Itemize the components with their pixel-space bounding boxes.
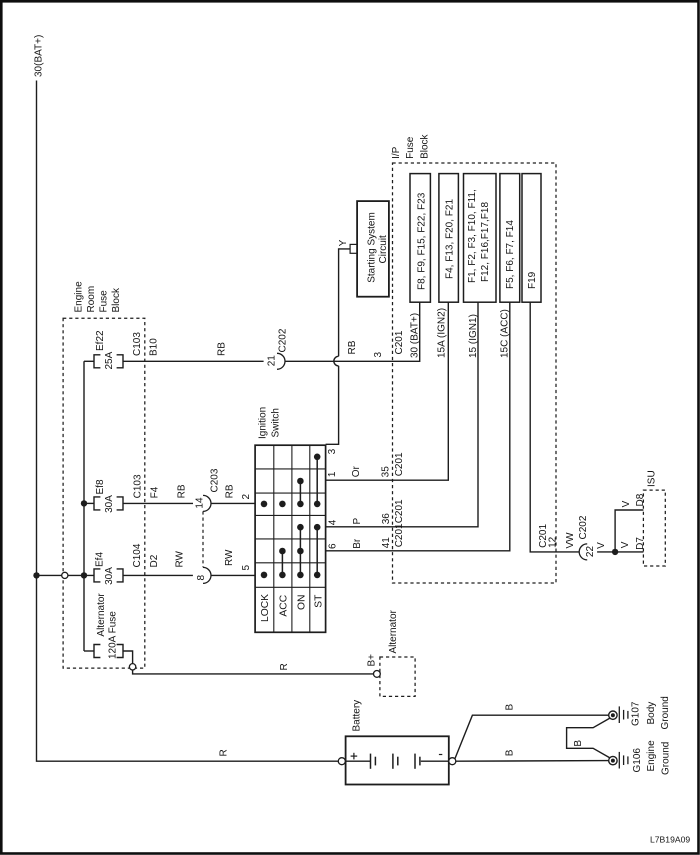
svg-text:G106: G106 <box>632 748 643 773</box>
svg-text:B: B <box>505 704 516 711</box>
svg-text:F19: F19 <box>527 271 538 289</box>
svg-text:D8: D8 <box>635 493 646 506</box>
bulkhead connector circle <box>62 572 68 578</box>
fuse 120A Alternator Fuse <box>84 650 94 652</box>
svg-text:Ground: Ground <box>661 742 672 775</box>
Alternator dashed box <box>380 657 415 696</box>
wire RB from Ef22 <box>123 360 264 362</box>
svg-text:15A (IGN2): 15A (IGN2) <box>437 308 448 358</box>
wire 30(BAT+) bus <box>37 81 339 762</box>
fuse group F8 F9 F15 F22 F23 <box>410 174 430 303</box>
wire RB from Ef8 <box>123 502 193 504</box>
svg-text:RB: RB <box>217 342 228 356</box>
svg-text:14: 14 <box>195 497 206 509</box>
svg-text:36: 36 <box>381 513 392 525</box>
svg-text:Fuse: Fuse <box>99 290 110 313</box>
svg-text:30 (BAT+): 30 (BAT+) <box>410 313 421 358</box>
wire RB to ignition switch pin 2 <box>211 502 255 504</box>
svg-text:V: V <box>620 541 631 548</box>
bulkhead connector circle <box>129 664 135 670</box>
ISU dashed box <box>643 490 665 566</box>
wire branch to engine room fuse block <box>37 574 62 576</box>
wire B battery to body ground G107 <box>455 715 609 759</box>
svg-text:V: V <box>621 500 632 507</box>
Battery box <box>346 736 449 784</box>
svg-text:41: 41 <box>381 537 392 549</box>
svg-text:LOCK: LOCK <box>260 594 271 622</box>
wire hop over RB wire <box>334 356 339 366</box>
svg-text:8: 8 <box>196 575 207 581</box>
connector C202 pin 22 <box>579 544 587 560</box>
svg-text:C201: C201 <box>394 499 405 523</box>
wire Br ignition switch pin 6 to fuse block <box>326 302 510 551</box>
svg-text:C202: C202 <box>578 515 589 539</box>
svg-text:Body: Body <box>646 702 657 725</box>
battery - terminal <box>449 758 456 765</box>
svg-text:30A: 30A <box>104 567 115 585</box>
wire B jumper between grounds <box>567 718 610 758</box>
svg-text:L7B19A09: L7B19A09 <box>650 835 690 845</box>
Engine Room Fuse Block dashed box <box>63 318 145 668</box>
svg-text:Room: Room <box>86 286 97 313</box>
svg-text:ISU: ISU <box>647 470 658 487</box>
svg-text:C103: C103 <box>132 332 143 356</box>
svg-text:Engine: Engine <box>646 740 657 772</box>
svg-text:Y: Y <box>338 239 349 246</box>
ignition switch body <box>255 445 326 632</box>
wire from F19 to ISU <box>530 302 579 552</box>
svg-text:Alternator: Alternator <box>96 593 107 637</box>
svg-text:Engine: Engine <box>74 281 85 313</box>
fuse Ef8 30A <box>84 502 94 504</box>
svg-text:25A: 25A <box>104 351 115 369</box>
junction on V wire <box>612 549 618 555</box>
svg-text:RB: RB <box>225 484 236 498</box>
svg-text:Block: Block <box>420 133 431 158</box>
svg-text:Or: Or <box>351 466 362 478</box>
junction Ef8 feed <box>81 500 87 506</box>
I/P Fuse Block dashed box <box>393 163 557 583</box>
battery minus sign <box>439 754 442 756</box>
wire Y from starting system circuit <box>339 249 351 356</box>
svg-text:Ef4: Ef4 <box>95 552 106 567</box>
svg-text:Fuse: Fuse <box>405 136 416 159</box>
svg-text:Starting System: Starting System <box>367 212 378 283</box>
svg-text:4: 4 <box>327 519 338 525</box>
wire Y to ignition switch pin 3 <box>326 366 339 444</box>
fuse Ef22 25A <box>84 360 94 362</box>
ground G106 symbol <box>609 756 617 764</box>
svg-text:30A: 30A <box>104 495 115 513</box>
wire V to ISU D7 <box>597 551 643 553</box>
wire Or ignition switch pin 1 to fuse block <box>326 302 449 480</box>
svg-text:B10: B10 <box>149 338 160 356</box>
svg-text:22: 22 <box>585 546 596 558</box>
svg-text:RB: RB <box>347 340 358 354</box>
fuse Ef4 30A <box>94 569 100 582</box>
svg-text:6: 6 <box>327 543 338 549</box>
svg-text:Block: Block <box>111 287 122 312</box>
svg-text:35: 35 <box>381 466 392 478</box>
svg-text:F4: F4 <box>150 486 161 498</box>
wire from alternator fuse <box>123 651 133 664</box>
svg-text:15C (ACC): 15C (ACC) <box>500 309 511 358</box>
tab on box <box>350 244 357 253</box>
fuse F19 <box>522 174 541 303</box>
svg-text:C201: C201 <box>394 523 405 547</box>
svg-text:C201: C201 <box>394 452 405 476</box>
svg-text:1: 1 <box>327 471 338 477</box>
fuse group F4 F13 F20 F21 <box>439 174 459 303</box>
svg-text:C104: C104 <box>132 543 143 567</box>
svg-text:ACC: ACC <box>279 594 290 616</box>
svg-text:Br: Br <box>352 538 363 549</box>
svg-text:RW: RW <box>175 550 186 567</box>
svg-text:B: B <box>573 740 584 747</box>
wire RW to ignition switch pin 5 <box>211 574 255 576</box>
fuse group F1 F2 F3 F10 F11 F12 F16 F17 F18 <box>464 174 497 303</box>
svg-text:3: 3 <box>327 448 338 454</box>
svg-text:F5, F6, F7, F14: F5, F6, F7, F14 <box>505 220 516 289</box>
svg-text:Ignition: Ignition <box>258 407 269 439</box>
ground G107 symbol <box>609 711 617 719</box>
wire RW from Ef4 <box>123 574 193 576</box>
svg-text:R: R <box>219 749 230 756</box>
wire B battery to engine ground G106 <box>456 760 609 763</box>
svg-text:F1, F2, F3, F10, F11,: F1, F2, F3, F10, F11, <box>467 189 478 283</box>
svg-text:Ground: Ground <box>660 696 671 729</box>
svg-text:F8, F9, F15, F22, F23: F8, F9, F15, F22, F23 <box>416 192 427 290</box>
svg-text:ON: ON <box>297 595 308 610</box>
svg-text:B: B <box>505 749 516 756</box>
Starting System Circuit box <box>357 201 389 297</box>
svg-text:C203: C203 <box>210 468 221 492</box>
svg-text:C201: C201 <box>394 330 405 354</box>
wire P ignition switch pin 4 to fuse block <box>326 302 478 527</box>
svg-text:V: V <box>596 542 607 549</box>
fuse group F5 F6 F7 F14 <box>500 174 520 303</box>
svg-text:Battery: Battery <box>352 700 363 732</box>
svg-text:C103: C103 <box>133 474 144 498</box>
svg-text:Alternator: Alternator <box>388 609 399 653</box>
svg-text:Ef22: Ef22 <box>95 330 106 351</box>
junction on bus <box>33 572 39 578</box>
svg-text:D7: D7 <box>635 537 646 550</box>
svg-text:VW: VW <box>565 532 576 549</box>
svg-text:Switch: Switch <box>271 408 282 437</box>
svg-text:Circuit: Circuit <box>378 235 389 264</box>
switch contacts <box>314 454 321 461</box>
svg-text:G107: G107 <box>631 701 642 726</box>
wire into fuse block <box>68 574 94 576</box>
svg-text:ST: ST <box>314 594 325 608</box>
svg-text:30(BAT+): 30(BAT+) <box>34 35 45 77</box>
wire R to alternator B+ <box>133 670 374 674</box>
svg-text:F12, F16,F17,F18: F12, F16,F17,F18 <box>480 202 491 282</box>
wire V to ISU D8 <box>615 510 643 552</box>
svg-text:120A Fuse: 120A Fuse <box>108 611 119 659</box>
svg-text:2: 2 <box>241 494 252 500</box>
alternator B+ terminal <box>374 671 381 678</box>
C203 connector dashed link <box>202 511 204 567</box>
wire RB to fuse block <box>285 302 420 361</box>
svg-text:12: 12 <box>548 536 559 548</box>
svg-text:F4, F13, F20, F21: F4, F13, F20, F21 <box>445 199 456 279</box>
svg-text:P: P <box>352 518 363 525</box>
fuse bus wire <box>83 361 85 651</box>
svg-text:D2: D2 <box>149 554 160 567</box>
battery plus sign <box>351 755 358 757</box>
svg-text:21: 21 <box>267 355 278 367</box>
svg-text:RW: RW <box>224 549 235 566</box>
svg-text:C202: C202 <box>278 328 289 352</box>
junction Ef4 feed <box>81 572 87 578</box>
svg-text:RB: RB <box>177 484 188 498</box>
battery + terminal <box>338 758 345 765</box>
svg-text:5: 5 <box>241 565 252 571</box>
svg-text:B+: B+ <box>366 654 377 667</box>
svg-text:I/P: I/P <box>391 146 402 159</box>
switch contact links <box>316 457 318 504</box>
battery cells <box>345 760 370 762</box>
svg-text:R: R <box>279 663 290 670</box>
svg-text:3: 3 <box>373 352 384 358</box>
svg-text:Ef8: Ef8 <box>95 479 106 494</box>
